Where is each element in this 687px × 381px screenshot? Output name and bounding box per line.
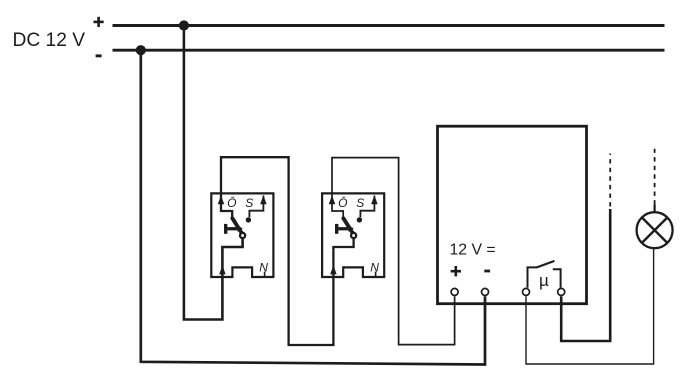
svg-text:N: N (259, 260, 268, 274)
svg-text:Ō: Ō (227, 196, 236, 210)
svg-text:Ō: Ō (338, 196, 347, 210)
svg-text:12 V =: 12 V = (450, 241, 496, 258)
svg-text:S: S (245, 196, 253, 210)
svg-text:S: S (356, 196, 364, 210)
svg-text:DC 12 V: DC 12 V (13, 30, 86, 51)
svg-text:µ: µ (539, 271, 549, 290)
svg-text:N: N (370, 260, 379, 274)
